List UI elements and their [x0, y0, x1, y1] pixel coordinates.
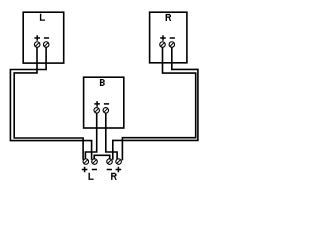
terminal R- [169, 42, 175, 48]
label L (amp channel L) [89, 173, 94, 180]
minus sign B- [104, 103, 109, 105]
terminal B- [103, 108, 109, 114]
minus sign amp L- [92, 169, 97, 171]
terminal B+ [94, 108, 100, 114]
plus sign R+ [160, 35, 166, 41]
label R (speaker R) [166, 14, 172, 21]
wire B- to amp R+ [106, 113, 117, 159]
speaker box R [150, 12, 187, 63]
wire B+ to amp L+ [85, 113, 96, 159]
plus sign B+ [94, 101, 100, 107]
amp terminal 2 (L-) [92, 159, 98, 165]
amp terminal 1 (L+) [83, 159, 89, 165]
label L (speaker L) [40, 14, 45, 21]
plus sign L+ [34, 35, 40, 41]
plus sign amp R+ [116, 167, 122, 173]
amp terminal 4 (R+) [116, 159, 122, 165]
minus sign L- [44, 37, 49, 39]
wire R- to amp R- [113, 47, 198, 160]
label R (amp channel R) [111, 173, 117, 180]
plus sign amp L+ [82, 167, 88, 173]
jumper wire amp L- to amp R- [94, 155, 110, 159]
terminal L- [43, 42, 49, 48]
label B [100, 79, 105, 86]
wire R+ to amp R+ [122, 47, 195, 160]
amp terminal 3 (R-) [107, 159, 113, 165]
wire L+ to amp L+ [14, 47, 83, 160]
terminal L+ [34, 42, 40, 48]
minus sign amp R- [107, 169, 112, 171]
speaker box L [23, 12, 64, 63]
terminal R+ [160, 42, 166, 48]
wire L- to amp L- [10, 47, 91, 160]
minus sign R- [170, 37, 175, 39]
speaker box B (bridge/center) [84, 77, 124, 128]
